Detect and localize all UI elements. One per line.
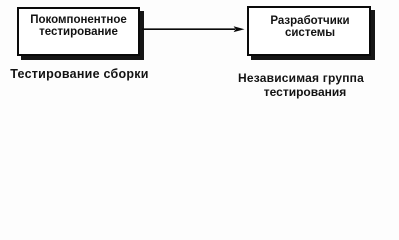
box: Покомпонентное тестирование (17, 7, 140, 56)
label: Независимая группа тестирования (line 1) (231, 71, 371, 85)
label inside left box (17, 14, 140, 38)
wire: arrow from left box to right box (0, 0, 399, 111)
label: Тестирование сборки (0, 68, 159, 81)
label inside right box (248, 15, 372, 39)
label: Независимая группа тестирования (line 2) (235, 85, 375, 99)
box: Разработчики системы (247, 6, 371, 56)
